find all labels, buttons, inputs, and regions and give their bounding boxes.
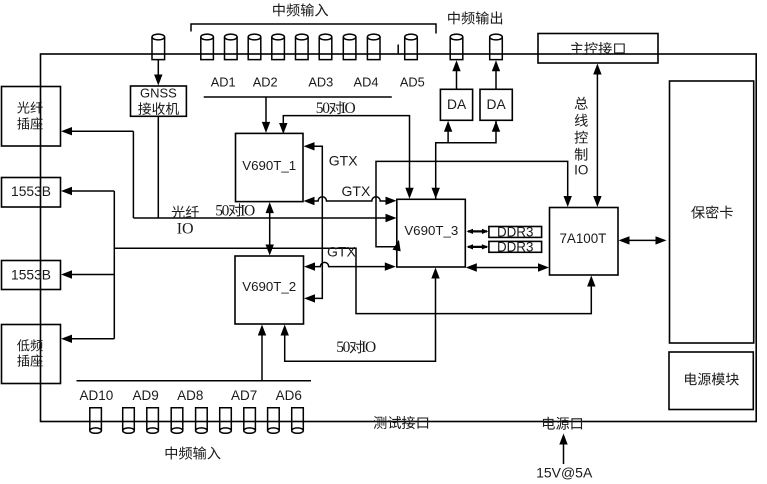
- svg-text:50: 50: [336, 339, 350, 356]
- svg-text:GTX: GTX: [342, 183, 371, 199]
- svg-text:IO: IO: [177, 221, 194, 238]
- svg-text:1553B: 1553B: [11, 184, 51, 199]
- svg-text:GTX: GTX: [327, 244, 356, 260]
- svg-text:DDR3: DDR3: [497, 224, 533, 239]
- svg-text:7A100T: 7A100T: [559, 231, 606, 246]
- svg-text:IO: IO: [574, 163, 588, 178]
- svg-text:AD1: AD1: [211, 75, 236, 90]
- svg-text:DA: DA: [487, 97, 507, 112]
- svg-text:GTX: GTX: [329, 153, 358, 169]
- svg-text:AD9: AD9: [132, 388, 158, 403]
- svg-text:IO: IO: [341, 100, 356, 117]
- svg-text:IO: IO: [361, 339, 376, 356]
- svg-text:AD6: AD6: [276, 388, 302, 403]
- svg-text:DDR3: DDR3: [497, 239, 533, 254]
- svg-text:AD3: AD3: [308, 75, 333, 90]
- svg-text:AD10: AD10: [80, 388, 114, 403]
- svg-text:V690T_2: V690T_2: [242, 279, 296, 294]
- svg-text:DA: DA: [447, 97, 467, 112]
- svg-text:IO: IO: [240, 202, 255, 219]
- svg-text:AD2: AD2: [253, 75, 278, 90]
- svg-text:AD5: AD5: [400, 75, 425, 90]
- svg-text:AD4: AD4: [354, 75, 379, 90]
- svg-text:AD7: AD7: [231, 388, 257, 403]
- svg-text:50: 50: [316, 100, 330, 117]
- svg-text:V690T_3: V690T_3: [404, 223, 458, 238]
- svg-text:V690T_1: V690T_1: [242, 158, 296, 173]
- svg-text:GNSS: GNSS: [140, 86, 177, 101]
- svg-text:AD8: AD8: [177, 388, 203, 403]
- svg-text:1553B: 1553B: [11, 268, 51, 283]
- svg-text:15V@5A: 15V@5A: [536, 465, 593, 481]
- svg-text:50: 50: [215, 202, 229, 219]
